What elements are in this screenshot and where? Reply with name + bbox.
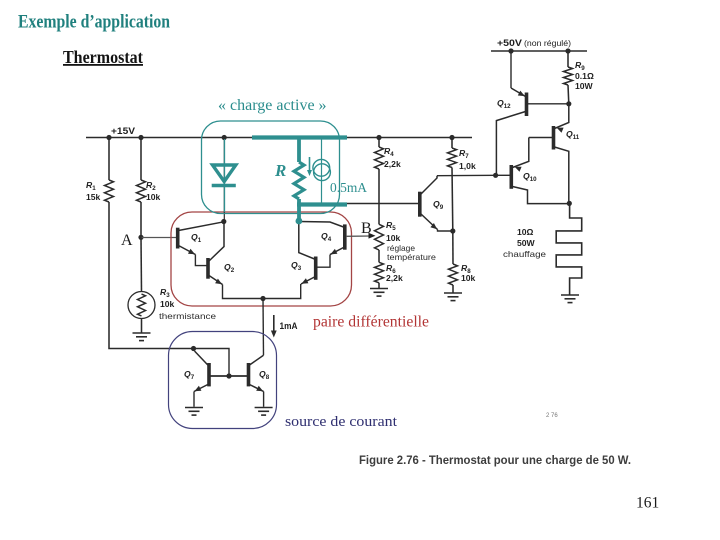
- svg-text:15k: 15k: [86, 192, 101, 202]
- svg-text:161: 161: [636, 495, 659, 512]
- svg-text:température: température: [387, 253, 436, 262]
- wire R2 to node A: [140, 202, 142, 237]
- svg-text:A: A: [121, 232, 133, 249]
- wire Q4 collector node to Q9 base: [300, 203, 419, 205]
- svg-text:+15V: +15V: [111, 126, 135, 136]
- svg-text:50W: 50W: [517, 238, 536, 248]
- svg-text:10W: 10W: [575, 81, 594, 91]
- resistor R2 10k: [140, 138, 142, 181]
- svg-text:10k: 10k: [146, 192, 161, 202]
- heater element 10ohm 50W meander: [556, 203, 582, 294]
- junction R2/rail: [138, 135, 143, 140]
- svg-text:chauffage: chauffage: [503, 249, 546, 259]
- svg-text:10Ω: 10Ω: [517, 227, 534, 237]
- teal arrow 0.5mA: [309, 157, 311, 172]
- ground under Q7: [185, 408, 203, 416]
- svg-text:R: R: [274, 161, 286, 180]
- resistor R1 15k: [108, 138, 110, 181]
- wire thermistor to ground: [141, 319, 143, 334]
- transistor Q9: [418, 192, 422, 217]
- current arrow 1mA: [273, 315, 275, 333]
- resistor R8 10k: [452, 231, 454, 264]
- wiper wire Q4 base to R5: [346, 235, 371, 237]
- svg-text:1,0k: 1,0k: [459, 161, 476, 171]
- svg-text:+50V: +50V: [497, 38, 522, 48]
- wire mirror base rail: [210, 375, 248, 377]
- junction base rail: [226, 373, 231, 378]
- teal resistor R: [297, 138, 301, 163]
- wire R4 to R5: [378, 169, 380, 224]
- svg-text:Exemple d’application: Exemple d’application: [18, 12, 170, 33]
- ground under heater: [561, 295, 579, 303]
- node Q9 emitter / R7 / R8: [450, 228, 455, 233]
- junction R1/rail: [106, 135, 111, 140]
- wire node A to thermistor: [140, 237, 143, 292]
- +50V supply rail: [491, 50, 587, 52]
- teal emphasized supply bus: [252, 135, 347, 139]
- svg-text:paire différentielle: paire différentielle: [313, 314, 429, 331]
- transistor Q3: [314, 257, 318, 280]
- svg-text:2 76: 2 76: [546, 413, 558, 419]
- transistor Q11: [552, 126, 556, 150]
- transistor Q10: [509, 165, 513, 189]
- wire Q9 collector to Q10 base node: [437, 174, 496, 176]
- junction R4/rail: [376, 135, 381, 140]
- transistor Q2: [206, 258, 210, 279]
- node A: [138, 235, 143, 240]
- teal outline charge active: [202, 121, 340, 214]
- wire R1 to current mirror: [109, 202, 193, 349]
- navy outline source de courant: [169, 332, 277, 429]
- ground under thermistor: [133, 333, 151, 341]
- potentiometer R5 10k reglage temperature: [375, 224, 384, 250]
- transistor Q1: [176, 228, 180, 249]
- thermistor R3 10k: [128, 292, 155, 319]
- transistor Q12: [525, 93, 529, 117]
- svg-text:(non régulé): (non régulé): [524, 38, 571, 48]
- resistor R7 1,0k: [451, 138, 453, 149]
- node Q10 base / Q12 collector / Q9 collector: [493, 173, 498, 178]
- node heater top: [567, 201, 572, 206]
- wire node A to Q1 base: [141, 237, 176, 239]
- teal wire through diode: [224, 139, 226, 212]
- svg-text:1mA: 1mA: [280, 321, 299, 331]
- diode (teal): [213, 165, 236, 182]
- teal output bus: [297, 202, 347, 206]
- junction diode wire/rail: [222, 135, 227, 140]
- svg-text:10k: 10k: [386, 233, 401, 243]
- svg-text:0.5mA: 0.5mA: [330, 181, 368, 196]
- transistor Q8: [247, 363, 251, 386]
- svg-text:« charge active »: « charge active »: [218, 97, 327, 114]
- wire tail to current source: [262, 299, 265, 356]
- +15V supply rail: [86, 137, 472, 139]
- resistor R6 2,2k: [375, 262, 384, 283]
- node Q3-Q4 collector: [296, 219, 301, 224]
- node mirror input: [191, 346, 196, 351]
- junction R7/rail: [449, 135, 454, 140]
- svg-text:thermistance: thermistance: [159, 311, 216, 321]
- wire collector node to +15V rail: [223, 138, 225, 222]
- wire diode connection Q7: [194, 349, 230, 377]
- wire R9 to Q11 emitter node: [567, 85, 570, 104]
- svg-text:Thermostat: Thermostat: [63, 47, 143, 67]
- resistor R4 2,2k: [378, 138, 380, 148]
- svg-text:0.1Ω: 0.1Ω: [575, 71, 594, 81]
- junction Q12 emitter/rail: [508, 48, 513, 53]
- ground under R8: [444, 293, 462, 301]
- ground under R6: [370, 289, 388, 297]
- node Q1-Q2 collector: [221, 219, 226, 224]
- transistor Q7: [207, 363, 211, 386]
- junction R9/rail: [565, 48, 570, 53]
- svg-text:2,2k: 2,2k: [384, 159, 401, 169]
- tail node of differential pair: [260, 296, 265, 301]
- svg-text:source de courant: source de courant: [285, 414, 398, 430]
- ground under Q8: [255, 408, 273, 416]
- svg-text:10k: 10k: [160, 299, 175, 309]
- red outline paire differentielle: [171, 212, 352, 306]
- transistor Q4: [343, 224, 347, 249]
- svg-text:réglage: réglage: [387, 244, 415, 253]
- svg-text:2,2k: 2,2k: [386, 273, 403, 283]
- wire R5 to R6: [378, 250, 380, 262]
- svg-text:10k: 10k: [461, 273, 476, 283]
- wire R7 to Q9 emitter node: [451, 168, 454, 232]
- current source symbol (teal): [313, 159, 330, 176]
- teal wire through current source: [321, 139, 323, 203]
- resistor R9 0.1ohm 10W: [567, 51, 569, 67]
- node R9 bottom / Q12 base / Q11 emitter: [566, 101, 571, 106]
- svg-text:Figure 2.76 - Thermostat pour: Figure 2.76 - Thermostat pour une charge…: [359, 453, 631, 467]
